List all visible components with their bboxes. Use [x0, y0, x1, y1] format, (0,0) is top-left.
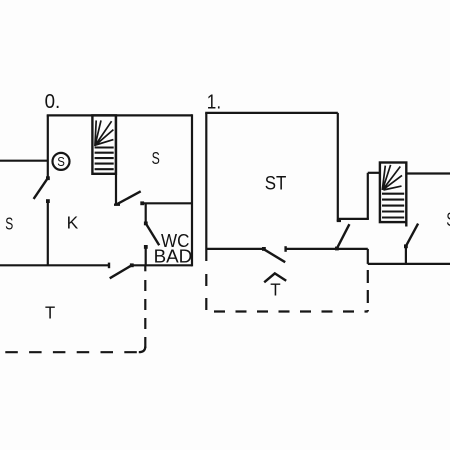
hall wall horizontal: [338, 218, 369, 220]
plan1 top wall: [205, 112, 338, 114]
stair1 right wall horizontal: [406, 172, 450, 174]
plan1 bottom wall left: [206, 248, 264, 250]
plan0 left wall hinge dot upper: [46, 176, 50, 180]
svg-text:S: S: [446, 210, 450, 231]
terrace1 dashed left: [205, 274, 207, 312]
WC door leaf: [146, 223, 160, 245]
stair0 right wall foot: [114, 203, 120, 205]
svg-text:S: S: [5, 213, 13, 233]
plan0 right wall: [191, 114, 193, 266]
terrace1 dashed right: [367, 270, 369, 312]
stair0 right wall: [115, 115, 117, 204]
plan0 bottom door leaf: [110, 265, 132, 278]
hall door leaf: [337, 224, 350, 248]
right wall lower: [405, 246, 407, 264]
terrace0 dashed vertical: [144, 280, 146, 348]
svg-text:1.: 1.: [207, 91, 221, 113]
terrace0 corner: [139, 347, 146, 353]
svg-text:S: S: [152, 148, 160, 168]
plan0 S-room divider wall: [0, 160, 48, 162]
hall wall vertical: [367, 173, 369, 219]
WC left wall upper: [145, 203, 147, 223]
svg-text:ST: ST: [265, 173, 287, 194]
svg-text:K: K: [67, 213, 79, 233]
svg-text:S: S: [57, 154, 65, 169]
smoke detector circle S: [53, 153, 70, 170]
stair0 rungs: [95, 148, 114, 170]
plan0 bottom wall right: [132, 264, 192, 266]
plan1 bottom wall mid: [286, 248, 368, 250]
WC top wall: [142, 202, 192, 204]
stair0 box: [92, 115, 116, 173]
plan1 bottom door hinge dot: [262, 247, 266, 251]
svg-text:BAD: BAD: [154, 246, 193, 266]
plan1 bottom wall right: [368, 263, 450, 265]
plan1 bottom door leaf: [264, 249, 285, 262]
plan0 left wall upper: [47, 115, 49, 178]
svg-text:T: T: [270, 280, 281, 300]
terrace1 arrow chevron: [264, 273, 286, 282]
svg-text:T: T: [45, 303, 55, 323]
WC left wall lower: [145, 246, 147, 265]
plan0 bottom door hinge dot: [130, 263, 134, 267]
stair1 rungs: [382, 194, 404, 218]
plan0 bottom wall end tick: [108, 263, 110, 269]
right door leaf: [406, 224, 418, 247]
hall door hinge dot: [335, 247, 339, 251]
S-room door hinge dot: [140, 201, 144, 205]
stair1 fan: [382, 165, 402, 190]
plan1 left wall: [205, 113, 207, 261]
WC hinge dot lower: [144, 245, 148, 249]
terrace0 dashed horizontal: [5, 351, 137, 353]
plan1 step vertical: [367, 249, 369, 264]
plan1 bottom wall end tick: [284, 246, 286, 252]
plan0 left wall lower: [47, 200, 49, 265]
plan0 bottom wall left: [0, 264, 109, 266]
plan0 top wall: [47, 114, 192, 116]
hall wall to stair: [368, 172, 380, 174]
plan0 left wall hinge dot lower: [46, 199, 50, 203]
terrace1 dashed bottom: [214, 310, 368, 312]
svg-text:0.: 0.: [45, 91, 61, 113]
ST right wall foot: [337, 220, 341, 222]
stair0 fan: [95, 120, 114, 146]
WC hinge dot upper: [144, 222, 148, 226]
plan0 left door leaf: [34, 178, 48, 199]
stair1 box: [380, 163, 406, 223]
terrace0 stub: [144, 265, 146, 271]
ST right wall: [337, 113, 339, 221]
stair1 bottom tick: [405, 222, 407, 226]
right door hinge dot: [404, 244, 408, 248]
S-room door leaf: [116, 191, 141, 204]
